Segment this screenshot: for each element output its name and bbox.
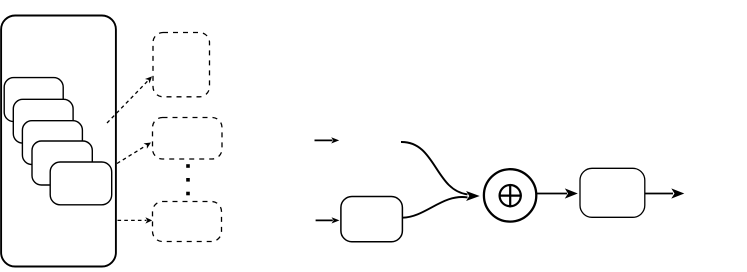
dashed box 3 [153, 202, 222, 242]
vertical ellipsis dot 3 [186, 192, 190, 196]
block H (rounded rect right) [580, 168, 645, 217]
xor node: plus horizontal [499, 195, 522, 197]
block M (rounded rect left) [341, 197, 403, 242]
container (stack frame) [1, 16, 116, 267]
merged arrowhead into xor [466, 191, 480, 201]
card 4 [32, 141, 92, 185]
bottom curve from block M into xor [403, 197, 468, 218]
card 5 [50, 162, 111, 205]
output arrow [645, 188, 685, 198]
xor node: inner circle [500, 185, 521, 206]
small input arrow (top) [315, 137, 340, 143]
vertical ellipsis dot 2 [186, 178, 190, 182]
card 3 [22, 121, 82, 165]
top curve into xor [401, 142, 468, 194]
card 2 [13, 99, 73, 143]
xor node: plus vertical [509, 184, 511, 207]
dashed box 1 [153, 33, 210, 97]
dashed arrow 1 (stack to box 1) [107, 74, 154, 123]
input arrow into block M [316, 217, 340, 223]
arrow xor to block H [537, 188, 578, 198]
vertical ellipsis dot 1 [186, 164, 190, 168]
dashed arrow 2 (stack to box 2) [117, 140, 153, 164]
xor node: outer circle [484, 169, 536, 221]
dashed arrow 3 (stack to box 3) [118, 217, 153, 223]
dashed box 2 [153, 118, 223, 160]
card 1 [4, 78, 63, 122]
